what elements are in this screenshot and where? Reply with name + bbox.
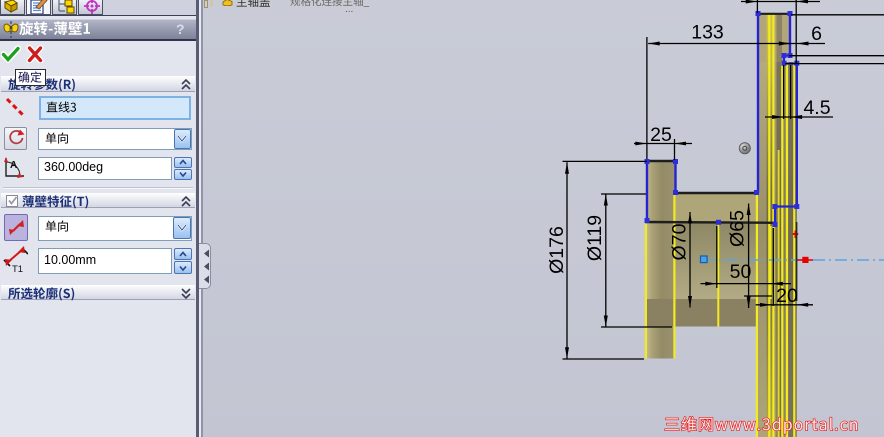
clipped feature tree row [204, 0, 208, 8]
svg-text:50: 50 [730, 261, 752, 283]
thin wall checkbox [6, 195, 18, 207]
sketch line tube outer lower [796, 64, 798, 207]
panel right border [196, 0, 199, 437]
sketch line flange right [674, 161, 676, 193]
dimension 6 [779, 43, 825, 45]
svg-text:4.5: 4.5 [803, 97, 830, 119]
sketch line tube top [757, 13, 792, 15]
sketch point square [701, 256, 708, 263]
ok checkmark [1, 45, 21, 63]
sketch line tube outer upper [789, 13, 791, 56]
tab 2 [26, 0, 51, 15]
body fill [675, 193, 758, 223]
yellow tube stripe 2 [768, 14, 770, 437]
axis textbox [39, 96, 191, 120]
section header selected contours [1, 285, 195, 301]
thickness icon [2, 246, 28, 274]
tab 3 [52, 0, 77, 15]
section header thin wall [1, 193, 195, 209]
yellow tube stripe 3b [778, 150, 780, 437]
dimension 4.5 [783, 65, 785, 119]
svg-text:20: 20 [776, 285, 798, 307]
tab1 icon yellow block [3, 0, 23, 14]
tooltip OK [15, 69, 46, 87]
yellow tube stripe 5 [786, 62, 788, 437]
thickness spinners [174, 248, 192, 261]
title bar icon [2, 21, 20, 38]
flyout pull tab [199, 243, 211, 289]
yellow edge body right [770, 226, 772, 299]
viewport background [202, 0, 884, 437]
sketch notch [784, 56, 797, 64]
tab4 icon sensor crosshair [82, 0, 102, 14]
svg-text:T1: T1 [12, 264, 23, 274]
tab 4 [78, 0, 103, 15]
dimension 133 [648, 43, 790, 45]
tab2 icon document pencil [30, 0, 50, 14]
gray sphere marker [739, 143, 750, 154]
dimension dia176 [566, 162, 568, 358]
svg-text:Ø65: Ø65 [726, 210, 748, 247]
centerline [703, 259, 884, 261]
angle icon [3, 156, 27, 180]
tube band mid [773, 62, 777, 437]
title bar bottom rule [0, 39, 196, 41]
tube shading overlay [758, 62, 798, 437]
revolve axis red segment [796, 259, 813, 261]
direction combo 2 [38, 216, 192, 241]
tab bar bottom line [0, 15, 196, 17]
tube band dark top [777, 14, 783, 62]
dimension 20 [756, 304, 813, 306]
revolve type button [4, 127, 27, 150]
dimension 50 [701, 283, 792, 285]
angle field [38, 157, 172, 180]
svg-text:133: 133 [691, 21, 724, 43]
tube band light left [758, 62, 767, 437]
tab3 icon tree [56, 0, 76, 14]
top face witness line right [791, 14, 884, 16]
tube band dark [777, 62, 783, 437]
help question mark [176, 21, 190, 36]
flange column fill [646, 161, 676, 359]
svg-text:Ø119: Ø119 [584, 215, 606, 261]
dimension dia65 [748, 204, 750, 309]
tube band mustard [767, 14, 774, 437]
angle spinners [174, 157, 192, 168]
tube top fill [758, 14, 791, 56]
cancel cross [26, 45, 44, 63]
red tick marker [793, 231, 798, 239]
sketch line tube left [757, 13, 759, 193]
svg-text:25: 25 [650, 124, 672, 146]
groove separator [3, 187, 193, 188]
dark mirrored band [646, 299, 763, 327]
mirrored tube edge [796, 222, 798, 301]
yellow edge flange right [673, 194, 675, 359]
tab 1 [0, 0, 25, 15]
property manager panel [0, 0, 196, 437]
yellow tube stripe 4 [781, 62, 783, 437]
svg-text:A: A [10, 160, 17, 171]
tube band darkest [789, 62, 795, 437]
svg-text:6: 6 [811, 23, 822, 45]
sketch line step [675, 192, 758, 194]
panel title bar [0, 19, 196, 39]
combo 1 arrow button [174, 129, 192, 149]
dimension dia119 [605, 194, 607, 327]
dimension dia70 [689, 212, 691, 308]
yellow tube edge 1 [756, 193, 758, 437]
section header rotate params [1, 76, 195, 92]
sketch line flange left [646, 161, 648, 222]
thickness field [38, 248, 172, 274]
yellow edge flange left [645, 221, 647, 359]
sketch vertex dots [756, 11, 761, 16]
axis handle square [802, 257, 808, 263]
axis icon red dashed [4, 96, 28, 120]
tube main fill [758, 64, 798, 437]
yellow edge body mid [717, 224, 719, 327]
partial top dimension [741, 1, 820, 3]
tab bar [0, 0, 196, 15]
sketch line step right [775, 207, 797, 225]
tube right sliver [794, 62, 797, 437]
sketch line bore [645, 221, 775, 224]
direction combo 1 [38, 128, 192, 151]
yellow tube stripe 3 [772, 14, 774, 437]
body lower region [675, 222, 758, 299]
combo 2 arrow button [173, 217, 191, 239]
svg-text:Ø70: Ø70 [668, 223, 690, 260]
thin wall type button (pressed) [4, 214, 28, 241]
watermark [663, 415, 862, 437]
svg-text:Ø176: Ø176 [546, 226, 568, 274]
off-screen dimension witness lines [789, 55, 884, 57]
yellow tube stripe 6 [793, 62, 795, 437]
sketch line flange top [645, 160, 677, 162]
dimension 25 [674, 139, 676, 160]
